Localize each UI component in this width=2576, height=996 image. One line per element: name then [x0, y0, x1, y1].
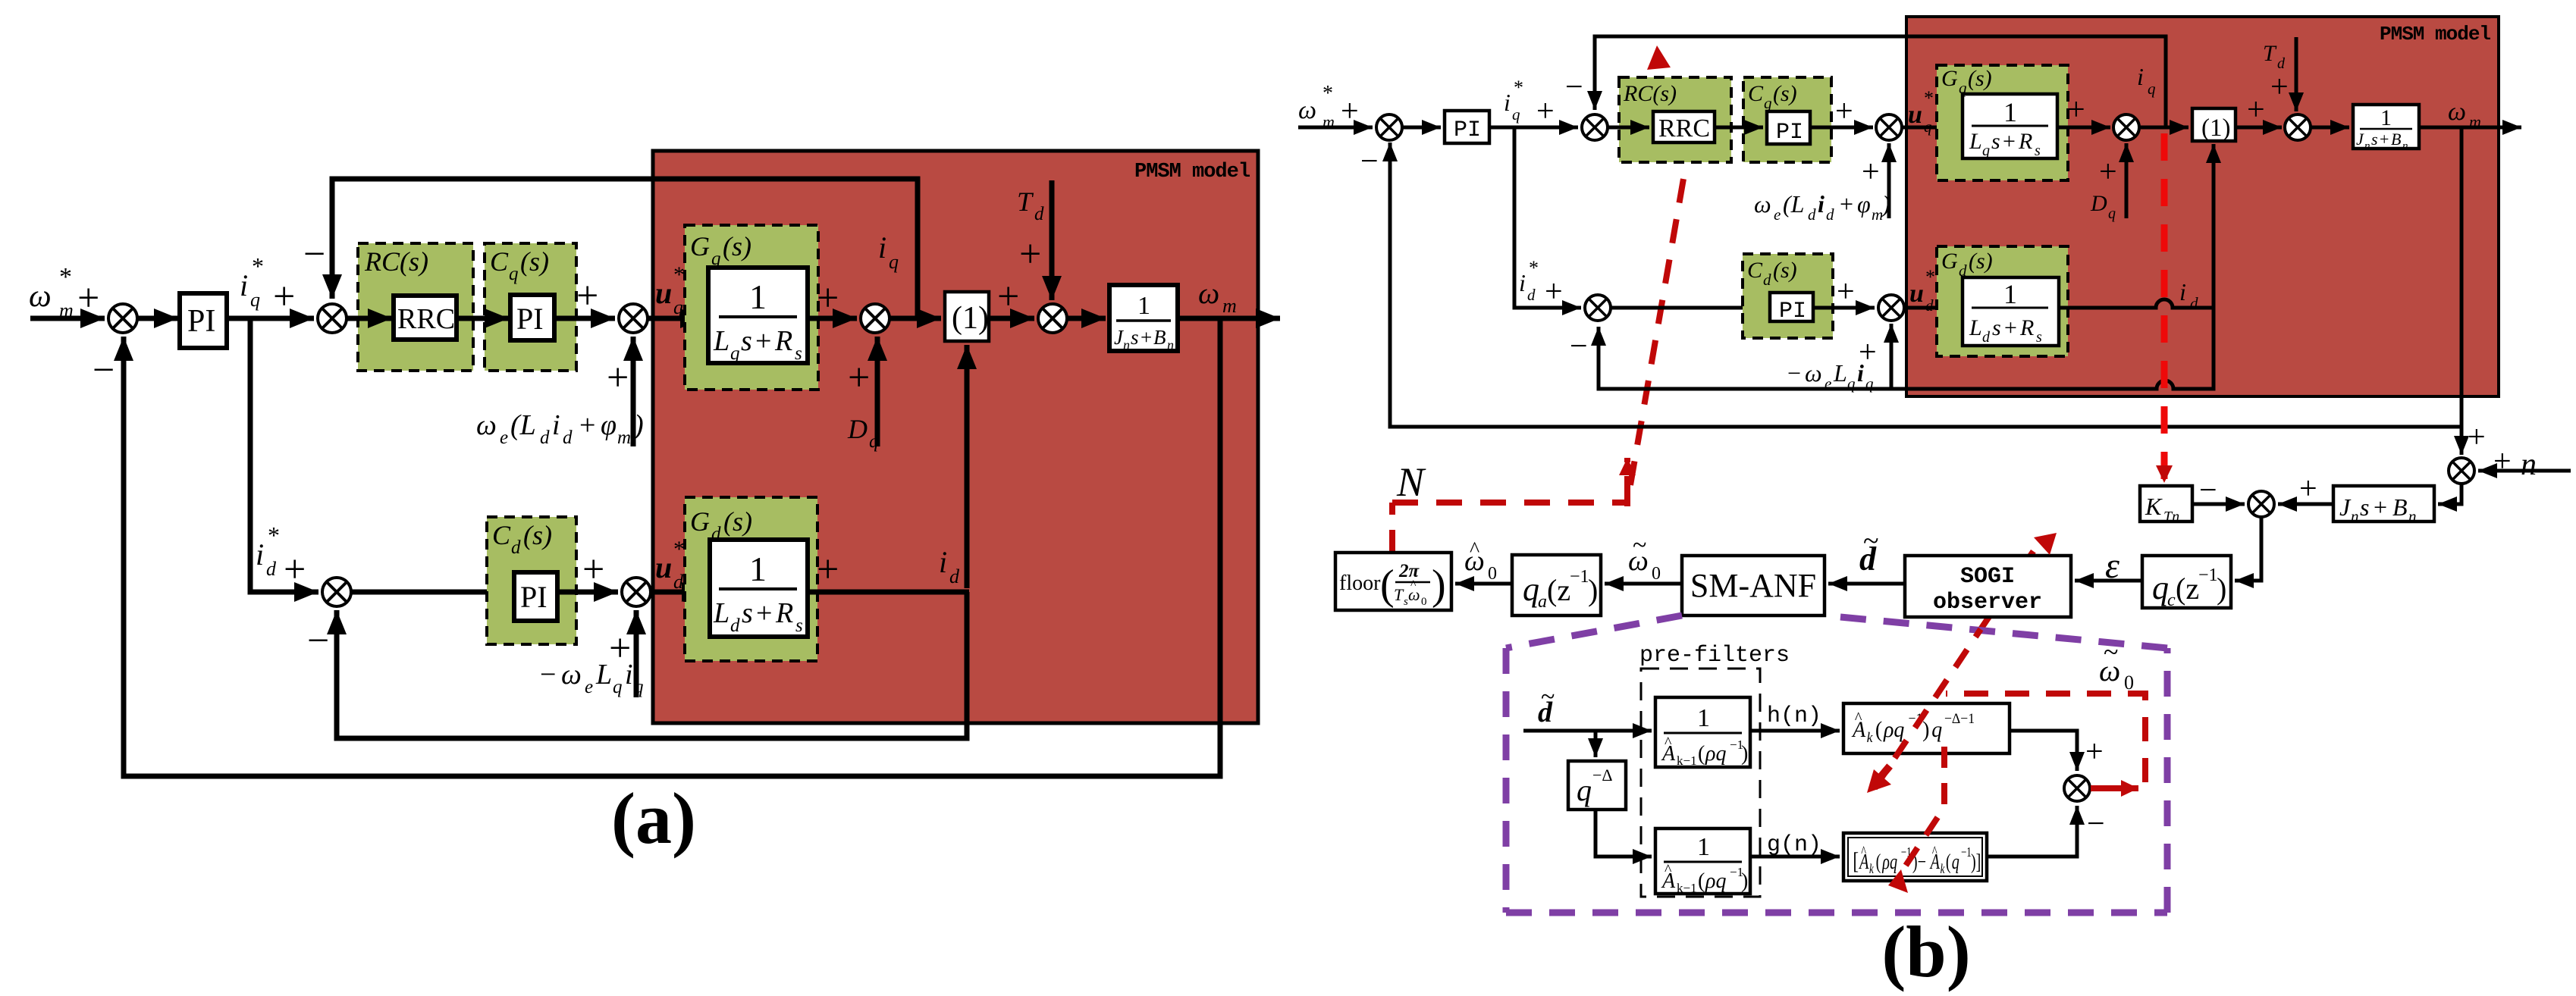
svg-text:+: + — [582, 548, 604, 591]
svg-text:(s): (s) — [723, 231, 751, 262]
svg-text:): ) — [1922, 717, 1929, 742]
svg-text:(: ( — [1380, 562, 1395, 609]
svg-text:SM-ANF: SM-ANF — [1690, 567, 1816, 604]
summing junction B1 — [1376, 114, 1402, 140]
svg-text:m: m — [1872, 205, 1883, 224]
svg-text:s: s — [2360, 493, 2369, 521]
label -weLqiq — [540, 659, 644, 697]
wire: id arrow up into (1) (b) — [2212, 144, 2216, 308]
svg-text:1: 1 — [749, 277, 767, 316]
svg-text:PI: PI — [520, 580, 548, 614]
svg-text:PMSM model: PMSM model — [1134, 161, 1250, 183]
summing junction S5 — [1038, 304, 1067, 333]
svg-text:1: 1 — [749, 550, 767, 588]
svg-text:1: 1 — [2003, 97, 2017, 127]
wire: B1 to PI (b) — [1402, 126, 1441, 130]
svg-text:(z: (z — [1547, 573, 1570, 607]
svg-text:+: + — [2004, 315, 2017, 340]
svg-text:+: + — [817, 548, 839, 591]
label -weLqiq (b) — [1787, 359, 1874, 393]
svg-text:q: q — [1512, 105, 1520, 124]
wire: bottom prefilter to bracket block — [1750, 855, 1840, 859]
svg-text:+: + — [579, 409, 595, 441]
wire: PId to Bd2 — [1813, 306, 1875, 310]
svg-text:−1: −1 — [1961, 845, 1972, 860]
svg-text:q: q — [889, 251, 899, 273]
svg-text:(L: (L — [1783, 190, 1804, 218]
wire: S6 to PI3 — [351, 590, 513, 595]
wire: Gq to B4 (b) — [2057, 126, 2110, 130]
svg-text:ω: ω — [2448, 98, 2466, 126]
svg-text:J: J — [2356, 130, 2364, 149]
summing junction S4 — [861, 304, 890, 333]
svg-text:B: B — [1153, 326, 1166, 349]
svg-text:C: C — [1747, 258, 1763, 283]
block SM-ANF — [1682, 556, 1825, 615]
wire: q-delta down to bottom prefilter — [1595, 810, 1652, 857]
svg-text:PMSM model: PMSM model — [2380, 23, 2490, 45]
svg-text:L: L — [713, 597, 730, 629]
label Td (b) — [2263, 41, 2286, 72]
block qc(z-1) — [2142, 556, 2231, 608]
svg-text:^: ^ — [1665, 734, 1672, 751]
svg-text:s: s — [741, 325, 752, 357]
svg-text:u: u — [655, 550, 672, 584]
svg-text:d: d — [540, 428, 550, 448]
label d tilde input — [1538, 683, 1555, 728]
svg-text:ω: ω — [29, 279, 52, 314]
red dashed diagonal through bracket block — [1903, 747, 1944, 870]
svg-text:d: d — [1808, 205, 1816, 224]
label +n — [2493, 444, 2537, 482]
svg-text:φ: φ — [1857, 190, 1871, 218]
wire: (1) to S5 — [989, 316, 1034, 321]
label Dq — [847, 414, 879, 452]
svg-text:J: J — [2339, 493, 2352, 521]
Cd(s) green box — [487, 517, 576, 644]
label iq near top tap — [878, 230, 899, 273]
wire: B7 down to qc — [2235, 517, 2261, 581]
label we(Ldid+phim) (b) — [1754, 190, 1890, 224]
wire: top prefilter to Ak block — [1750, 729, 1840, 733]
svg-text:R: R — [2018, 129, 2032, 154]
svg-text:(: ( — [1946, 850, 1951, 874]
svg-text:Tn: Tn — [2163, 509, 2179, 525]
svg-text:): ) — [1741, 869, 1748, 893]
svg-text:n: n — [1123, 337, 1130, 352]
wire: S5 to Jn block — [1067, 316, 1106, 321]
svg-text:^: ^ — [1470, 538, 1479, 562]
wire: qc to SOGI — [2075, 579, 2142, 583]
svg-text:PI: PI — [516, 302, 544, 336]
red dashed diagonal lower piece (over prefilter boxes) — [1875, 629, 1981, 788]
block 1/(Lds+Rs) (b) — [1963, 277, 2059, 346]
svg-text:+: + — [77, 277, 99, 320]
wire: Bd1 to PId (b) — [1611, 306, 1766, 310]
svg-text:n: n — [2364, 140, 2370, 152]
wire: feedforward arrow into B3 — [1887, 143, 1891, 218]
wire: SOGI to SM-ANF — [1828, 582, 1905, 586]
svg-text:q: q — [250, 289, 260, 311]
block SOGI observer — [1905, 556, 2071, 617]
wire: JnsBn to B7 — [2278, 503, 2333, 506]
pre-filters dashed box — [1641, 669, 1760, 897]
svg-text:q: q — [1952, 850, 1959, 874]
wire: omega_m down to noise sum — [2460, 427, 2464, 455]
wire: PI to S2 — [227, 316, 314, 321]
svg-text:ρq: ρq — [1881, 850, 1897, 874]
wire: Bn to JnsBn block — [2438, 484, 2461, 504]
summing junction B5 — [2285, 114, 2311, 140]
svg-text:k: k — [1941, 862, 1946, 877]
svg-text:d: d — [1982, 329, 1991, 346]
svg-text:L: L — [713, 325, 730, 357]
wire: input omega_m* — [30, 316, 105, 321]
svg-text:+: + — [2003, 129, 2016, 154]
d-axis: wire id* from tap down and right to S6 — [250, 318, 318, 592]
svg-text:R: R — [775, 597, 793, 629]
block 1/(Jns+Bn) — [1109, 285, 1178, 351]
svg-text:T: T — [1394, 585, 1404, 604]
label we(Ldid+phim) — [476, 409, 644, 448]
svg-text:T: T — [2263, 41, 2277, 66]
wire: B4 to (1) (b) — [2139, 126, 2189, 130]
svg-text:RRC: RRC — [1658, 114, 1710, 143]
svg-text:^: ^ — [1932, 843, 1937, 860]
wire: Td arrow into B5 (b) — [2295, 37, 2298, 111]
wire: SM-ANF to qa — [1605, 582, 1682, 586]
svg-text:k: k — [1867, 729, 1874, 745]
svg-text:−: − — [1570, 329, 1588, 364]
svg-text:s: s — [1992, 315, 2001, 340]
wire: iq feedback top into S2 — [332, 179, 918, 317]
svg-text:q: q — [673, 296, 683, 318]
svg-text:ω: ω — [476, 409, 497, 441]
svg-text:*: * — [252, 252, 264, 280]
label id — [939, 545, 960, 587]
svg-text:(L: (L — [510, 409, 536, 441]
svg-text:+: + — [1835, 94, 1853, 129]
svg-text:(: ( — [1698, 742, 1705, 766]
svg-text:B: B — [2391, 130, 2401, 149]
svg-text:PI: PI — [187, 304, 215, 339]
svg-text:+: + — [2380, 130, 2389, 149]
svg-text:*: * — [673, 262, 685, 287]
svg-text:u: u — [1909, 280, 1924, 308]
svg-text:φ: φ — [601, 409, 617, 441]
wire: -weLqiq arrow into Bd2 (b) — [1890, 324, 1894, 389]
wire: RRC to PI2 — [457, 316, 509, 321]
svg-text:*: * — [59, 263, 72, 291]
svg-text:G: G — [690, 231, 710, 262]
wire: input omega_m* (b) — [1298, 126, 1373, 130]
svg-text:ρq: ρq — [1883, 717, 1904, 742]
svg-text:SOGI: SOGI — [1960, 564, 2015, 590]
svg-text:s: s — [1991, 129, 2000, 154]
svg-text:+: + — [273, 275, 295, 318]
svg-text:*: * — [1514, 77, 1523, 99]
svg-text:e: e — [500, 428, 508, 448]
svg-text:~: ~ — [1541, 683, 1555, 711]
svg-text:−: − — [93, 349, 115, 392]
svg-text:R: R — [2019, 315, 2034, 340]
svg-text:0: 0 — [1488, 564, 1497, 584]
wire: qa to floor — [1455, 582, 1512, 586]
svg-text:q: q — [730, 343, 740, 364]
wire: -weLqiq arrow into S7 — [634, 610, 639, 697]
red dashed N path: floor up, right, arrow up, diagonal up to RC(s) — [1392, 80, 1684, 553]
svg-text:m: m — [617, 428, 631, 448]
svg-text:i: i — [2179, 278, 2186, 305]
svg-text:+: + — [1536, 94, 1555, 129]
svg-text:^: ^ — [1861, 843, 1866, 860]
svg-text:+: + — [997, 275, 1019, 318]
svg-text:+: + — [2067, 92, 2085, 127]
svg-text:m: m — [1323, 112, 1335, 131]
summing junction Bd1 — [1585, 295, 1611, 321]
svg-text:q: q — [1959, 79, 1967, 97]
svg-text:ω: ω — [1198, 276, 1219, 310]
wire: PI3 to S7 — [557, 590, 618, 595]
svg-text:L: L — [1969, 315, 1982, 340]
svg-text:q: q — [1982, 143, 1990, 159]
svg-text:n: n — [2408, 507, 2417, 525]
wire: B3 into Gq (b) — [1902, 126, 1959, 130]
svg-text:R: R — [774, 325, 792, 357]
red arrowhead up-left near SOGI — [2034, 533, 2057, 555]
block PI current d (a) — [514, 572, 557, 621]
svg-text:d: d — [563, 428, 573, 448]
svg-text:d: d — [511, 537, 521, 558]
block (1) — [945, 292, 989, 341]
wire: output omega_m (b) — [2419, 126, 2521, 130]
svg-text:+: + — [1545, 274, 1563, 309]
svg-text:d: d — [1826, 205, 1834, 224]
svg-text:+: + — [2270, 70, 2289, 105]
svg-text:i: i — [1857, 359, 1864, 387]
wire: KTn to B7 — [2192, 503, 2245, 506]
svg-text:~: ~ — [2104, 637, 2118, 667]
block Jns+Bn — [2333, 486, 2434, 521]
svg-text:): ) — [1881, 190, 1890, 218]
svg-text:k−1: k−1 — [1677, 881, 1697, 895]
svg-text:e: e — [1774, 205, 1781, 224]
svg-text:q: q — [1577, 773, 1592, 807]
svg-text:)]: )] — [1971, 850, 1981, 874]
label ud* (b) — [1909, 266, 1935, 315]
svg-text:0: 0 — [2124, 672, 2134, 694]
label iq top (b) — [2137, 63, 2156, 98]
svg-text:~: ~ — [1863, 525, 1879, 557]
svg-text:PI: PI — [1776, 120, 1803, 146]
svg-text:(s): (s) — [723, 506, 752, 537]
svg-text:i: i — [939, 545, 947, 579]
svg-text:G: G — [690, 506, 710, 537]
svg-text:−: − — [540, 659, 556, 691]
label omega_m* — [29, 263, 74, 321]
svg-text:h(n): h(n) — [1767, 703, 1821, 729]
svg-text:ω: ω — [561, 659, 582, 691]
svg-text:i: i — [878, 230, 886, 265]
Gq(s) green box — [685, 225, 818, 390]
svg-text:PI: PI — [1454, 117, 1481, 143]
label omega_m (b) — [2448, 98, 2481, 131]
purple dashed explosion outline — [1506, 615, 2167, 913]
svg-text:(: ( — [1698, 869, 1705, 893]
wire: id feedback — [337, 592, 967, 738]
svg-text:*: * — [673, 537, 685, 562]
wire: iq feedback top into B2 (b) — [1595, 36, 2166, 127]
svg-text:ε: ε — [2105, 546, 2119, 586]
svg-text:+: + — [1862, 155, 1880, 189]
Gq(s) green box (b) — [1937, 65, 2068, 180]
svg-text:+: + — [1141, 326, 1152, 349]
label iq* — [240, 252, 264, 311]
svg-text:0: 0 — [1421, 596, 1427, 608]
svg-text:floor: floor — [1339, 572, 1381, 595]
block PI current q (b) — [1767, 111, 1810, 144]
svg-text:K: K — [2145, 493, 2163, 520]
block KTn — [2140, 486, 2192, 521]
svg-text:G: G — [1941, 249, 1958, 274]
svg-text:d: d — [1925, 296, 1934, 315]
svg-text:(b): (b) — [1881, 911, 1970, 992]
svg-text:i: i — [240, 268, 248, 302]
wire: Ak block to B8 from top — [2010, 731, 2077, 771]
label omega0 hat — [1464, 538, 1497, 584]
svg-text:q: q — [2108, 205, 2116, 222]
summing junction B8 — [2064, 775, 2090, 801]
svg-text:1: 1 — [1697, 833, 1710, 861]
svg-text:m: m — [59, 299, 74, 321]
summing junction S2 — [318, 304, 347, 333]
svg-text:q: q — [1523, 571, 1539, 608]
wire: (1) to B5 — [2236, 126, 2282, 130]
summing junction S3 — [619, 304, 648, 333]
svg-text:1: 1 — [2380, 105, 2392, 130]
svg-text:+: + — [2099, 155, 2117, 189]
svg-text:+: + — [607, 356, 629, 399]
svg-text:+: + — [2299, 471, 2317, 506]
svg-text:u: u — [1908, 101, 1922, 129]
summing junction B7 — [2248, 491, 2274, 517]
svg-text:(s): (s) — [520, 246, 549, 277]
svg-text:0: 0 — [1652, 564, 1661, 584]
svg-text:^: ^ — [1665, 862, 1672, 879]
svg-text:+: + — [2085, 734, 2104, 769]
svg-text:q: q — [2152, 569, 2169, 606]
block RRC — [394, 296, 457, 340]
svg-text:C: C — [490, 246, 509, 277]
wire: S3 into Gq — [648, 316, 704, 321]
label id* (b) — [1519, 257, 1539, 304]
summing junction S1 — [108, 304, 137, 333]
svg-text:g(n): g(n) — [1767, 832, 1821, 858]
label Td — [1017, 186, 1044, 224]
label id (b) — [2179, 278, 2198, 312]
wire: PIq to B3 — [1810, 126, 1873, 130]
svg-text:−: − — [1565, 70, 1583, 105]
svg-text:e: e — [585, 677, 593, 697]
svg-text:m: m — [1222, 295, 1237, 317]
svg-text:q: q — [634, 677, 644, 697]
svg-text:s: s — [795, 343, 802, 364]
label uq* (b) — [1908, 87, 1934, 136]
label omega_m — [1198, 276, 1237, 317]
svg-text:q: q — [869, 431, 879, 452]
summing junction B4 — [2113, 114, 2139, 140]
svg-text:L: L — [1969, 129, 1982, 154]
svg-text:k−1: k−1 — [1677, 753, 1697, 768]
svg-text:1: 1 — [1137, 292, 1150, 320]
bright red dashed vertical (b) — [2161, 133, 2168, 483]
svg-text:RC(s): RC(s) — [1623, 81, 1677, 106]
svg-text:+: + — [2247, 92, 2265, 127]
svg-text:d: d — [1034, 204, 1044, 224]
wire: S7 into Gd — [651, 590, 706, 595]
svg-text:−: − — [303, 233, 325, 276]
block floor — [1335, 553, 1451, 610]
wire: PI to B2 — [1489, 126, 1578, 130]
block q^-delta — [1568, 761, 1626, 810]
svg-text:L: L — [595, 659, 612, 691]
summing junction Bd2 — [1878, 295, 1904, 321]
Cd(s) green box (b) — [1743, 254, 1833, 338]
svg-text:G: G — [1941, 66, 1958, 91]
svg-text:n: n — [2351, 507, 2359, 525]
wire: speed feedback (b) — [1390, 127, 2461, 427]
svg-text:q: q — [509, 264, 519, 284]
svg-text:q: q — [2148, 80, 2156, 98]
summing junction S6 — [322, 578, 351, 606]
svg-text:s: s — [2035, 143, 2041, 159]
svg-text:(s): (s) — [1968, 66, 1992, 91]
svg-text:(1): (1) — [2201, 114, 2230, 142]
svg-text:i: i — [552, 409, 560, 441]
svg-text:−: − — [2087, 807, 2105, 841]
svg-text:−: − — [2199, 473, 2217, 508]
svg-text:m: m — [2469, 112, 2481, 131]
svg-text:): ) — [1588, 573, 1598, 607]
svg-text:+: + — [848, 356, 870, 399]
wire: output omega_m — [1178, 316, 1280, 321]
summing junction B3 — [1876, 114, 1902, 140]
svg-text:+: + — [2468, 420, 2486, 455]
svg-text:−: − — [307, 619, 329, 662]
red output arrow from B8 — [2091, 785, 2138, 791]
svg-text:^: ^ — [1855, 708, 1862, 727]
svg-text:ω: ω — [1298, 96, 1316, 124]
block 1/Ak-1 bottom — [1655, 828, 1750, 894]
svg-text:s: s — [1131, 326, 1139, 349]
block PI current q (a) — [510, 295, 554, 340]
svg-text:): ) — [1741, 742, 1748, 766]
block PI speed (b) — [1445, 111, 1489, 143]
svg-text:): ) — [1432, 562, 1446, 609]
block (1) (b) — [2192, 108, 2236, 141]
red dashed diagonal SOGI link (under boxes) — [1981, 540, 2041, 629]
block 1/(Lds+Rs) — [710, 540, 808, 637]
svg-text:s: s — [795, 615, 803, 636]
svg-text:[: [ — [1853, 847, 1859, 875]
svg-text:RC(s): RC(s) — [364, 246, 428, 277]
svg-text:): ) — [632, 409, 644, 441]
svg-text:*: * — [268, 521, 280, 549]
wire: branch down to q-delta — [1594, 731, 1598, 757]
svg-text:s: s — [2371, 130, 2378, 149]
wire: Td arrow into S5 — [1050, 180, 1055, 300]
svg-text:+: + — [755, 325, 771, 357]
